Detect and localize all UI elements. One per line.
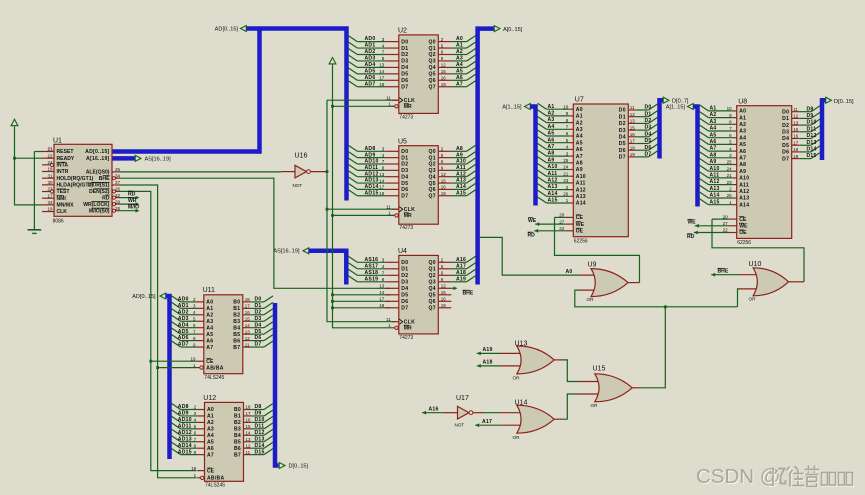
svg-text:74LS245: 74LS245 xyxy=(204,375,224,381)
svg-text:AD4: AD4 xyxy=(178,322,189,328)
svg-text:D2: D2 xyxy=(401,52,408,58)
svg-text:A14: A14 xyxy=(456,184,466,190)
svg-text:D4: D4 xyxy=(645,131,652,137)
svg-text:A16: A16 xyxy=(429,407,439,413)
svg-text:A7: A7 xyxy=(739,156,746,162)
svg-text:D7: D7 xyxy=(401,84,408,90)
svg-text:AD15: AD15 xyxy=(178,449,192,455)
svg-text:D10: D10 xyxy=(255,417,265,423)
svg-text:A1: A1 xyxy=(739,115,746,121)
svg-text:B7: B7 xyxy=(234,452,241,458)
svg-text:A1: A1 xyxy=(207,414,214,420)
svg-text:AD12: AD12 xyxy=(178,430,192,436)
svg-text:17: 17 xyxy=(246,411,252,416)
svg-text:18: 18 xyxy=(630,145,636,150)
svg-text:AD[0..15]: AD[0..15] xyxy=(85,149,109,155)
svg-text:U11: U11 xyxy=(203,287,215,294)
svg-text:A5: A5 xyxy=(548,131,555,137)
svg-text:U5: U5 xyxy=(398,139,407,146)
svg-text:AD1: AD1 xyxy=(365,43,376,49)
svg-text:D2: D2 xyxy=(401,162,408,168)
svg-text:D9: D9 xyxy=(807,113,814,119)
svg-text:A0: A0 xyxy=(576,107,583,113)
svg-text:DT/R(S1): DT/R(S1) xyxy=(88,183,110,189)
svg-text:Q0: Q0 xyxy=(429,149,436,155)
svg-text:D12: D12 xyxy=(807,133,817,139)
svg-text:AD13: AD13 xyxy=(178,436,192,442)
svg-text:AB/BA: AB/BA xyxy=(207,476,224,482)
svg-text:AD3: AD3 xyxy=(178,316,189,322)
svg-text:15: 15 xyxy=(441,290,447,295)
svg-text:U17: U17 xyxy=(456,395,469,402)
svg-text:D7: D7 xyxy=(782,156,789,162)
svg-text:D6: D6 xyxy=(782,150,789,156)
svg-text:13: 13 xyxy=(245,329,251,334)
svg-text:D3: D3 xyxy=(255,316,262,322)
svg-text:A8: A8 xyxy=(548,151,555,157)
svg-text:16: 16 xyxy=(630,132,636,137)
svg-text:A2: A2 xyxy=(206,313,213,319)
svg-text:D15: D15 xyxy=(807,153,817,159)
svg-text:AD10: AD10 xyxy=(178,417,192,423)
svg-text:U8: U8 xyxy=(738,98,747,105)
svg-text:A3: A3 xyxy=(206,319,213,325)
svg-text:A0: A0 xyxy=(739,109,746,115)
svg-text:A5: A5 xyxy=(576,140,583,146)
svg-text:A11: A11 xyxy=(710,173,720,179)
svg-text:U12: U12 xyxy=(203,395,216,402)
svg-text:AD2: AD2 xyxy=(178,309,189,315)
svg-text:A12: A12 xyxy=(548,178,558,184)
svg-text:OE: OE xyxy=(576,229,584,235)
svg-text:15: 15 xyxy=(245,316,251,321)
svg-text:AD0: AD0 xyxy=(365,36,376,42)
svg-text:17: 17 xyxy=(245,304,251,309)
svg-text:A4: A4 xyxy=(576,134,583,140)
svg-text:ALE(QS0): ALE(QS0) xyxy=(86,170,110,176)
svg-text:CE: CE xyxy=(739,217,747,223)
svg-text:30: 30 xyxy=(47,180,53,185)
svg-text:AD14: AD14 xyxy=(178,443,192,449)
svg-text:AS18: AS18 xyxy=(365,270,379,276)
svg-text:D5: D5 xyxy=(645,138,652,144)
svg-text:B0: B0 xyxy=(234,407,241,413)
svg-text:62256: 62256 xyxy=(574,239,588,245)
svg-text:D11: D11 xyxy=(807,126,817,132)
svg-text:BHE: BHE xyxy=(463,291,474,297)
svg-text:A9: A9 xyxy=(548,157,555,163)
svg-text:U4: U4 xyxy=(398,248,407,255)
svg-text:16: 16 xyxy=(793,134,799,139)
svg-text:11: 11 xyxy=(630,105,635,110)
svg-text:31: 31 xyxy=(47,173,53,178)
svg-text:D14: D14 xyxy=(807,147,817,153)
svg-text:A13: A13 xyxy=(576,194,586,200)
svg-text:D2: D2 xyxy=(619,121,626,127)
svg-text:D3: D3 xyxy=(645,125,652,131)
svg-text:A12: A12 xyxy=(710,179,720,185)
svg-text:AD8: AD8 xyxy=(178,404,189,410)
svg-text:29: 29 xyxy=(115,199,121,204)
svg-text:A0: A0 xyxy=(206,300,213,306)
svg-text:26: 26 xyxy=(115,187,121,192)
svg-text:TEST: TEST xyxy=(57,189,71,195)
svg-text:12: 12 xyxy=(441,284,447,289)
svg-text:WE: WE xyxy=(528,218,537,224)
svg-text:A2: A2 xyxy=(576,120,583,126)
svg-text:D5: D5 xyxy=(782,143,789,149)
svg-text:AD[0..15]: AD[0..15] xyxy=(215,27,239,33)
svg-text:Q0: Q0 xyxy=(429,260,436,266)
svg-text:A7: A7 xyxy=(710,146,717,152)
svg-text:Q5: Q5 xyxy=(429,181,436,187)
svg-text:14: 14 xyxy=(245,323,251,328)
svg-text:OE: OE xyxy=(739,230,747,236)
svg-text:A5: A5 xyxy=(739,142,746,148)
svg-text:B5: B5 xyxy=(234,439,241,445)
svg-text:17: 17 xyxy=(379,297,385,302)
svg-text:D11: D11 xyxy=(255,423,265,429)
svg-text:A[16..19]: A[16..19] xyxy=(86,156,110,162)
svg-text:D5: D5 xyxy=(619,141,626,147)
svg-text:A13: A13 xyxy=(739,196,749,202)
svg-text:A1: A1 xyxy=(548,104,555,110)
svg-text:RD: RD xyxy=(102,195,110,201)
svg-text:13: 13 xyxy=(379,284,385,289)
svg-text:A13: A13 xyxy=(710,186,720,192)
svg-text:B1: B1 xyxy=(233,306,240,312)
svg-text:28: 28 xyxy=(115,206,121,211)
svg-text:Q7: Q7 xyxy=(429,84,436,90)
svg-text:A5: A5 xyxy=(710,132,717,138)
svg-text:AD6: AD6 xyxy=(365,75,376,81)
svg-text:Q2: Q2 xyxy=(429,162,436,168)
svg-text:A[1..15]: A[1..15] xyxy=(666,105,686,111)
svg-text:19: 19 xyxy=(793,154,799,159)
svg-text:A3: A3 xyxy=(576,127,583,133)
svg-text:12: 12 xyxy=(441,63,447,68)
svg-text:B6: B6 xyxy=(234,446,241,452)
svg-text:A8: A8 xyxy=(710,152,717,158)
svg-text:11: 11 xyxy=(245,342,250,347)
svg-text:D2: D2 xyxy=(401,273,408,279)
svg-text:A5: A5 xyxy=(206,332,213,338)
svg-text:Q6: Q6 xyxy=(429,187,436,193)
svg-text:A7: A7 xyxy=(576,154,583,160)
svg-text:AD0: AD0 xyxy=(178,297,189,303)
svg-text:AD6: AD6 xyxy=(178,335,189,341)
svg-text:U15: U15 xyxy=(593,365,606,372)
svg-text:D5: D5 xyxy=(401,293,408,299)
svg-text:D4: D4 xyxy=(782,136,789,142)
svg-text:Q1: Q1 xyxy=(429,46,436,52)
svg-text:D3: D3 xyxy=(401,280,408,286)
svg-text:A8: A8 xyxy=(739,162,746,168)
svg-text:A1: A1 xyxy=(576,114,583,120)
svg-text:A2: A2 xyxy=(548,111,555,117)
svg-text:A6: A6 xyxy=(548,137,555,143)
svg-text:A1: A1 xyxy=(206,306,213,312)
svg-text:AD5: AD5 xyxy=(178,329,189,335)
svg-text:D7: D7 xyxy=(401,306,408,312)
svg-text:A5: A5 xyxy=(207,439,214,445)
svg-text:A14: A14 xyxy=(710,193,720,199)
svg-text:NOT: NOT xyxy=(293,183,303,188)
svg-text:19: 19 xyxy=(191,466,197,471)
svg-text:B3: B3 xyxy=(234,427,241,433)
svg-text:Q4: Q4 xyxy=(429,65,436,71)
svg-text:A1: A1 xyxy=(710,106,717,112)
svg-text:A3: A3 xyxy=(710,119,717,125)
svg-text:D0: D0 xyxy=(619,108,626,114)
svg-text:A4: A4 xyxy=(207,433,214,439)
svg-text:U16: U16 xyxy=(295,153,308,160)
svg-text:A6: A6 xyxy=(576,147,583,153)
svg-text:U9: U9 xyxy=(588,262,597,269)
svg-text:A13: A13 xyxy=(456,178,466,184)
svg-text:A4: A4 xyxy=(739,135,746,141)
svg-text:D2: D2 xyxy=(645,118,652,124)
svg-text:CLK: CLK xyxy=(404,319,415,325)
svg-text:16: 16 xyxy=(441,297,447,302)
svg-text:B7: B7 xyxy=(233,345,240,351)
svg-text:B2: B2 xyxy=(234,420,241,426)
svg-text:D1: D1 xyxy=(401,46,408,52)
svg-text:D14: D14 xyxy=(255,443,265,449)
svg-text:INTA: INTA xyxy=(57,163,69,169)
svg-text:A0: A0 xyxy=(565,269,572,275)
svg-text:B0: B0 xyxy=(233,300,240,306)
svg-text:12: 12 xyxy=(245,336,251,341)
svg-text:A6: A6 xyxy=(456,75,463,81)
svg-text:A9: A9 xyxy=(576,167,583,173)
svg-text:A10: A10 xyxy=(739,176,749,182)
svg-text:B4: B4 xyxy=(234,433,241,439)
svg-text:Q6: Q6 xyxy=(429,78,436,84)
svg-text:Q1: Q1 xyxy=(429,155,436,161)
svg-text:A12: A12 xyxy=(739,189,749,195)
svg-text:D2: D2 xyxy=(255,309,262,315)
svg-text:A12: A12 xyxy=(456,171,466,177)
svg-text:11: 11 xyxy=(793,107,798,112)
svg-text:27: 27 xyxy=(115,180,121,185)
svg-text:D0: D0 xyxy=(782,109,789,115)
svg-text:D0: D0 xyxy=(401,260,408,266)
svg-text:19: 19 xyxy=(190,356,196,361)
svg-text:19: 19 xyxy=(441,82,447,87)
svg-text:A8: A8 xyxy=(576,161,583,167)
svg-text:MR: MR xyxy=(404,326,412,332)
svg-text:M/IO: M/IO xyxy=(128,205,139,211)
svg-text:19: 19 xyxy=(441,191,447,196)
svg-text:RD: RD xyxy=(528,232,536,238)
svg-text:A15: A15 xyxy=(548,198,558,204)
svg-text:Q3: Q3 xyxy=(429,280,436,286)
svg-text:RD: RD xyxy=(687,234,695,240)
svg-text:A4: A4 xyxy=(456,62,463,68)
svg-text:16: 16 xyxy=(245,310,251,315)
svg-text:11: 11 xyxy=(386,204,391,209)
svg-text:A9: A9 xyxy=(710,159,717,165)
svg-text:D4: D4 xyxy=(619,135,626,141)
svg-text:D7: D7 xyxy=(401,193,408,199)
svg-text:AD11: AD11 xyxy=(365,165,379,171)
svg-text:HOLD(RQ/GT1): HOLD(RQ/GT1) xyxy=(57,176,94,182)
svg-text:Q3: Q3 xyxy=(429,168,436,174)
svg-text:AS[16..19]: AS[16..19] xyxy=(145,157,172,163)
svg-text:A4: A4 xyxy=(548,124,555,130)
svg-text:74273: 74273 xyxy=(399,335,413,341)
svg-text:D10: D10 xyxy=(807,120,817,126)
svg-text:RESET: RESET xyxy=(57,149,75,155)
svg-text:WE: WE xyxy=(739,224,748,230)
svg-text:OR: OR xyxy=(749,296,757,301)
svg-text:12: 12 xyxy=(793,114,799,119)
svg-text:16: 16 xyxy=(441,185,447,190)
svg-text:32: 32 xyxy=(115,193,121,198)
svg-text:15: 15 xyxy=(441,178,447,183)
svg-text:A3: A3 xyxy=(207,427,214,433)
svg-text:A17: A17 xyxy=(456,263,466,269)
svg-text:D5: D5 xyxy=(255,329,262,335)
svg-text:22: 22 xyxy=(47,153,53,158)
svg-text:A11: A11 xyxy=(576,181,586,187)
svg-text:D0: D0 xyxy=(645,105,652,111)
svg-text:16: 16 xyxy=(246,418,252,423)
svg-text:15: 15 xyxy=(441,69,447,74)
svg-text:A0: A0 xyxy=(207,407,214,413)
svg-text:B6: B6 xyxy=(233,338,240,344)
svg-text:19: 19 xyxy=(441,303,447,308)
svg-text:18: 18 xyxy=(246,405,252,410)
svg-text:CE: CE xyxy=(207,468,215,474)
svg-text:D13: D13 xyxy=(807,140,817,146)
svg-text:OR: OR xyxy=(513,375,521,380)
svg-text:A10: A10 xyxy=(576,174,586,180)
svg-text:A17: A17 xyxy=(482,419,492,425)
svg-text:A10: A10 xyxy=(548,164,558,170)
svg-text:A7: A7 xyxy=(207,452,214,458)
svg-text:A15: A15 xyxy=(456,190,466,196)
svg-text:D7: D7 xyxy=(619,155,626,161)
svg-text:74LS245: 74LS245 xyxy=(205,483,225,489)
svg-text:U14: U14 xyxy=(515,400,528,407)
svg-text:DEN(S2): DEN(S2) xyxy=(89,189,110,195)
svg-text:AD11: AD11 xyxy=(178,423,192,429)
svg-text:D13: D13 xyxy=(255,436,265,442)
svg-text:Q5: Q5 xyxy=(429,72,436,78)
svg-text:D2: D2 xyxy=(782,123,789,129)
svg-text:15: 15 xyxy=(793,127,799,132)
svg-text:D5: D5 xyxy=(401,72,408,78)
svg-text:D4: D4 xyxy=(255,322,262,328)
svg-text:A6: A6 xyxy=(710,139,717,145)
svg-text:24: 24 xyxy=(47,160,53,165)
svg-text:A3: A3 xyxy=(548,117,555,123)
svg-text:A7: A7 xyxy=(456,81,463,87)
svg-text:19: 19 xyxy=(47,207,53,212)
svg-text:13: 13 xyxy=(246,437,252,442)
svg-text:READY: READY xyxy=(57,156,75,162)
svg-text:A14: A14 xyxy=(576,201,586,207)
svg-text:AD8: AD8 xyxy=(365,146,376,152)
svg-text:AD3: AD3 xyxy=(365,56,376,62)
svg-text:AS[16..19]: AS[16..19] xyxy=(273,248,300,254)
svg-text:Q1: Q1 xyxy=(429,267,436,273)
svg-text:A7: A7 xyxy=(206,345,213,351)
svg-text:D8: D8 xyxy=(255,404,262,410)
svg-text:A10: A10 xyxy=(710,166,720,172)
svg-text:D7: D7 xyxy=(255,342,262,348)
svg-text:A16: A16 xyxy=(456,257,466,263)
svg-text:13: 13 xyxy=(793,120,799,125)
svg-text:19: 19 xyxy=(630,152,636,157)
svg-text:A5: A5 xyxy=(456,68,463,74)
svg-text:A6: A6 xyxy=(739,149,746,155)
svg-text:WR(LOCK): WR(LOCK) xyxy=(83,202,110,208)
svg-text:AS19: AS19 xyxy=(365,276,379,282)
svg-text:D4: D4 xyxy=(401,286,408,292)
svg-text:D3: D3 xyxy=(401,59,408,65)
svg-text:18: 18 xyxy=(47,167,53,172)
svg-text:11: 11 xyxy=(246,450,251,455)
svg-text:A11: A11 xyxy=(739,182,749,188)
svg-text:D[0..15]: D[0..15] xyxy=(289,464,309,470)
svg-text:D0: D0 xyxy=(255,297,262,303)
svg-text:OR: OR xyxy=(587,297,595,302)
svg-text:D9: D9 xyxy=(255,411,262,417)
svg-text:A1: A1 xyxy=(456,43,463,49)
svg-text:B1: B1 xyxy=(234,414,241,420)
svg-text:13: 13 xyxy=(630,119,636,124)
svg-text:B4: B4 xyxy=(233,325,240,331)
svg-text:25: 25 xyxy=(115,167,121,172)
svg-text:D7: D7 xyxy=(645,152,652,158)
svg-text:A14: A14 xyxy=(739,202,749,208)
svg-text:A4: A4 xyxy=(206,325,213,331)
svg-text:D1: D1 xyxy=(401,267,408,273)
svg-text:74273: 74273 xyxy=(399,114,413,120)
svg-text:A12: A12 xyxy=(576,187,586,193)
svg-text:AD4: AD4 xyxy=(365,62,376,68)
svg-text:15: 15 xyxy=(246,424,252,429)
svg-text:D3: D3 xyxy=(782,130,789,136)
svg-text:A2: A2 xyxy=(710,112,717,118)
svg-text:NMI: NMI xyxy=(57,196,67,202)
svg-text:A6: A6 xyxy=(207,446,214,452)
svg-text:A2: A2 xyxy=(739,122,746,128)
svg-text:A18: A18 xyxy=(483,360,493,366)
svg-text:MN/MX: MN/MX xyxy=(57,203,75,209)
svg-text:Q2: Q2 xyxy=(429,52,436,58)
svg-text:D5: D5 xyxy=(401,181,408,187)
svg-text:D6: D6 xyxy=(401,78,408,84)
svg-text:AD9: AD9 xyxy=(178,411,189,417)
svg-text:AD2: AD2 xyxy=(365,49,376,55)
svg-text:D1: D1 xyxy=(255,303,262,309)
svg-text:A14: A14 xyxy=(548,191,558,197)
svg-text:NOT: NOT xyxy=(455,422,465,427)
svg-text:34: 34 xyxy=(115,173,121,178)
svg-text:B2: B2 xyxy=(233,313,240,319)
svg-text:18: 18 xyxy=(793,147,799,152)
svg-text:18: 18 xyxy=(379,303,385,308)
svg-text:D1: D1 xyxy=(619,114,626,120)
svg-text:A7: A7 xyxy=(548,144,555,150)
svg-text:A11: A11 xyxy=(456,165,466,171)
svg-text:D15: D15 xyxy=(255,449,265,455)
svg-text:A[1..15]: A[1..15] xyxy=(502,105,522,111)
